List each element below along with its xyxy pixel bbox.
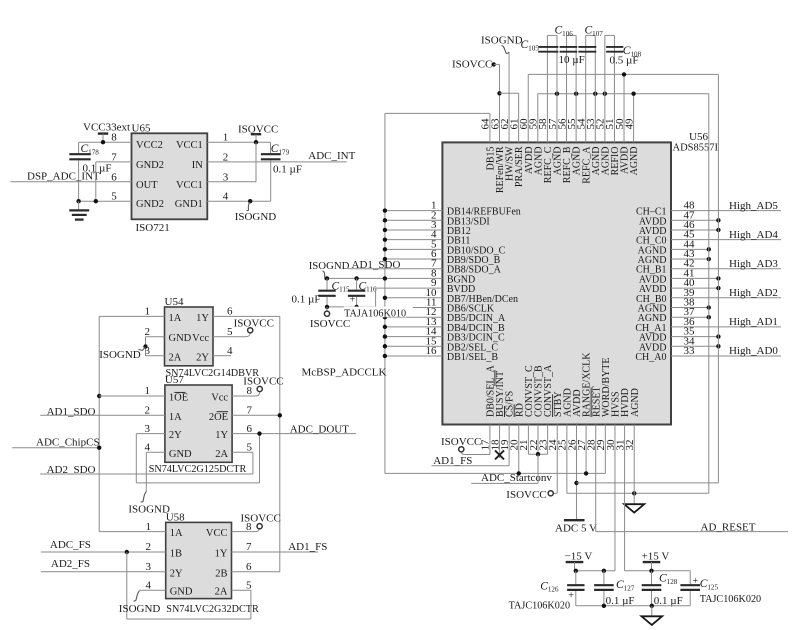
svg-text:2: 2 xyxy=(146,541,152,553)
isolator U65 box xyxy=(132,133,208,219)
svg-text:TAJC106K020: TAJC106K020 xyxy=(700,594,761,605)
net label DSP_ADC_INT xyxy=(27,170,100,182)
svg-text:4: 4 xyxy=(146,579,152,591)
svg-text:GND: GND xyxy=(169,333,192,344)
junction pin4 ISOGND tag xyxy=(248,199,252,203)
net label AD1_FS (pin19) xyxy=(433,455,472,467)
capacitor C116 (polarized) xyxy=(348,278,365,306)
svg-text:−15 V: −15 V xyxy=(565,550,593,562)
wire ADC_Startconv xyxy=(471,482,538,484)
junction pin8/VCC33ext xyxy=(101,140,105,144)
wire pin62 xyxy=(508,52,510,142)
ISOVCC terminal (pin17) xyxy=(441,436,481,452)
wire U65 pin4 GND1 xyxy=(207,200,270,202)
svg-text:3: 3 xyxy=(145,423,151,435)
svg-text:5: 5 xyxy=(247,442,253,454)
svg-text:ADS8557I: ADS8557I xyxy=(673,143,719,154)
wire U57 pin7 2OE xyxy=(232,414,280,416)
svg-text:AD2_FS: AD2_FS xyxy=(51,558,90,570)
svg-text:+: + xyxy=(693,576,699,587)
wire McBSP clock line xyxy=(385,425,605,474)
U56 reference label xyxy=(689,131,708,143)
junction at U57 pin7 xyxy=(278,413,282,417)
U56 right pin names xyxy=(635,207,666,363)
wire U57 pin6 1Y / net ADC_DOUT xyxy=(232,433,356,435)
svg-text:ISOVCC: ISOVCC xyxy=(243,376,283,388)
C107 label xyxy=(585,25,604,38)
net label ADC_ChipCS xyxy=(36,437,100,449)
junction dots row8 BGND xyxy=(325,276,359,280)
ISOGND tag squiggle (top) xyxy=(502,46,510,54)
data bus vertical (left of U56) xyxy=(384,113,386,473)
wire AD1_SDO to U57 pin2 1A xyxy=(40,414,165,416)
C127 value 0.1 uF xyxy=(606,595,635,607)
U56 bottom pin names xyxy=(486,352,641,417)
svg-text:U65: U65 xyxy=(132,122,151,134)
junction McBSP/pin27 xyxy=(584,471,588,475)
svg-text:1OE: 1OE xyxy=(169,393,188,404)
svg-text:SN74LVC2G32DCTR: SN74LVC2G32DCTR xyxy=(166,604,259,615)
svg-text:1: 1 xyxy=(145,385,151,397)
svg-text:ISOVCC: ISOVCC xyxy=(506,489,546,501)
svg-text:ISO721: ISO721 xyxy=(136,222,170,234)
svg-text:1: 1 xyxy=(146,521,152,533)
svg-text:High_AD4: High_AD4 xyxy=(729,229,778,241)
C126 plus sign xyxy=(568,590,574,601)
svg-text:High_AD2: High_AD2 xyxy=(729,287,778,299)
wire U65 pin2 IN / net ADC_INT xyxy=(207,161,346,163)
wire BVDD row9 drop xyxy=(375,288,377,307)
ISOGND tag (U65) xyxy=(235,202,277,223)
U65 part name ISO721 xyxy=(136,222,170,234)
svg-text:1A: 1A xyxy=(169,412,182,423)
svg-text:High_AD0: High_AD0 xyxy=(729,345,778,357)
junction pin63/rail-B-left xyxy=(497,91,501,95)
svg-text:ADC 5 V: ADC 5 V xyxy=(555,523,597,535)
svg-text:7: 7 xyxy=(246,541,252,553)
wire U58 pin8 VCC + ISOVCC stub xyxy=(232,528,260,532)
right AVDD/AGND junction dots xyxy=(707,218,721,348)
svg-text:ADC_FS: ADC_FS xyxy=(50,539,91,551)
capacitor C106 xyxy=(560,35,578,142)
wire pin25 AGND to ground line xyxy=(567,425,709,494)
svg-text:3: 3 xyxy=(146,561,152,573)
junction column at U57 pin1 xyxy=(97,394,101,398)
ISOVCC terminal (C115 rail) xyxy=(324,307,329,316)
wire ADC_FS branch to 2A loop xyxy=(127,552,251,619)
U58 part name SN74LVC2G32DCTR xyxy=(166,604,259,615)
AVDD rail A (top) xyxy=(528,73,718,75)
wire pin59 from rail B xyxy=(537,94,539,143)
junction ISOVCC label dot xyxy=(492,62,496,66)
capacitor C105 xyxy=(538,35,558,142)
power flag +15 V xyxy=(642,550,670,571)
C115 label xyxy=(332,280,351,293)
power flag ISOVCC (U65 right) xyxy=(238,124,278,143)
C108 label xyxy=(623,45,642,58)
wire C178 bottom lead xyxy=(78,160,80,201)
svg-text:GND: GND xyxy=(170,587,193,598)
U56 part name ADS8557I xyxy=(673,143,719,154)
svg-text:2A: 2A xyxy=(169,352,182,363)
part label TAJC106K020 (left) xyxy=(509,600,570,611)
U56 top pin numbers xyxy=(480,118,636,130)
svg-text:U57: U57 xyxy=(165,374,184,386)
wire U65 pin8 VCC2 xyxy=(79,141,132,143)
svg-text:AD_RESET: AD_RESET xyxy=(701,521,756,533)
svg-text:1A: 1A xyxy=(169,313,182,324)
wire bottom caps ground rail xyxy=(576,605,690,607)
wire AD1_FS to pin19 CS/FS xyxy=(432,425,510,466)
svg-text:ISOGND: ISOGND xyxy=(235,211,277,223)
C127 label xyxy=(616,579,635,592)
wire pin49 from rail B xyxy=(633,94,635,143)
junction ChipCS/column xyxy=(97,446,101,450)
svg-text:ISOVCC: ISOVCC xyxy=(241,512,281,524)
U56 right pin numbers xyxy=(684,200,696,357)
svg-text:2A: 2A xyxy=(215,587,228,598)
U56 left pin wires xyxy=(327,211,442,356)
wire ADC_ChipCS xyxy=(12,447,99,449)
wire U57 pin5 2A riser xyxy=(232,452,253,474)
wire AVDD 5V line xyxy=(576,482,718,484)
wire pin60 from rail A xyxy=(527,74,529,142)
ADC U56 box xyxy=(442,142,671,424)
net label AD1_FS (U58) xyxy=(288,541,327,553)
ISOVCC terminal (U58) xyxy=(241,512,281,528)
svg-text:0.1 µF: 0.1 µF xyxy=(273,163,302,175)
C116 label xyxy=(359,280,378,293)
net label ADC_Startconv xyxy=(481,472,552,484)
U58 reference label xyxy=(166,512,185,524)
AVDD column (right) xyxy=(717,74,719,483)
svg-text:1Y: 1Y xyxy=(215,430,228,441)
junction ground rail xyxy=(602,604,654,608)
svg-text:AD1_SDO: AD1_SDO xyxy=(47,406,96,418)
U54 reference label xyxy=(165,296,184,308)
wire ground stem xyxy=(651,606,653,616)
U54 pin names xyxy=(169,313,210,363)
svg-text:OUT: OUT xyxy=(136,180,158,191)
capacitor C179 xyxy=(261,154,281,159)
svg-text:Vcc: Vcc xyxy=(192,333,209,344)
ground triangle (pin32) xyxy=(624,504,644,512)
svg-text:U54: U54 xyxy=(165,296,184,308)
U57 pin names xyxy=(169,392,229,459)
svg-text:U58: U58 xyxy=(166,512,185,524)
net label ISOVCC (C115 rail) xyxy=(310,318,350,330)
svg-text:4: 4 xyxy=(227,345,233,357)
ISOGND tag squiggle (C115) xyxy=(323,271,328,279)
U57 pin numbers xyxy=(145,385,253,453)
capacitor C108 xyxy=(605,35,623,142)
svg-text:VCC: VCC xyxy=(206,528,228,539)
wire C178 top lead xyxy=(78,142,80,153)
svg-text:TAJA106K010: TAJA106K010 xyxy=(344,309,406,320)
junction U54 ISOGND tag xyxy=(143,344,147,348)
svg-text:GND: GND xyxy=(169,449,192,460)
capacitor C107 xyxy=(578,35,596,142)
net label AD2_SDO xyxy=(47,464,96,476)
capacitor C178 xyxy=(69,154,90,159)
svg-text:DSP_ADC_INT: DSP_ADC_INT xyxy=(27,170,100,182)
U58 pin names xyxy=(170,528,228,598)
wire U54 pin2 GND xyxy=(146,337,165,356)
wire U57 pin3 2Y xyxy=(136,434,165,483)
capacitor C128 xyxy=(642,571,662,606)
svg-text:ISOVCC: ISOVCC xyxy=(310,318,350,330)
junction dots rail B xyxy=(555,92,636,96)
wire U65 pin1 VCC1 xyxy=(207,141,270,143)
svg-text:ISOVCC: ISOVCC xyxy=(234,317,274,329)
svg-text:0.1 µF: 0.1 µF xyxy=(606,595,635,607)
svg-text:VCC33ext: VCC33ext xyxy=(83,121,130,133)
wire CONVST drop to ADC_Startconv xyxy=(537,454,539,483)
ISOVCC terminal (pin24) xyxy=(506,489,553,501)
wire U57 pin4 GND xyxy=(146,452,165,491)
svg-text:VCC2: VCC2 xyxy=(136,140,163,151)
net label ADC_DOUT xyxy=(290,423,350,435)
svg-text:High_AD3: High_AD3 xyxy=(729,258,778,270)
svg-text:10 µF: 10 µF xyxy=(559,54,585,66)
svg-text:GND2: GND2 xyxy=(136,160,164,171)
wire U58 pin6 2B xyxy=(232,571,280,573)
junction -15V rail xyxy=(574,569,607,573)
svg-text:ADC_INT: ADC_INT xyxy=(308,150,355,162)
svg-text:2B: 2B xyxy=(215,568,227,579)
svg-text:1B: 1B xyxy=(170,549,182,560)
C116 plus sign xyxy=(350,295,356,306)
svg-text:2Y: 2Y xyxy=(169,430,182,441)
junction McBSP/pin20 xyxy=(517,471,521,475)
wire U54 pin5 Vcc + ISOVCC stub xyxy=(213,333,250,337)
svg-text:6: 6 xyxy=(246,561,252,573)
wire U65 pin5 GND2 xyxy=(79,200,132,202)
wire pin50 from rail A xyxy=(623,74,625,142)
wire pin27 RANGE/XCLK xyxy=(585,425,587,474)
junction pin50 rail A xyxy=(622,72,626,76)
svg-text:1Y: 1Y xyxy=(196,313,209,324)
junction GND2 leads xyxy=(76,199,98,203)
wire ADC_ChipCS / U54-U57-U58 input column xyxy=(98,316,100,531)
U56 top pin names xyxy=(486,146,641,193)
U56 right pin wires xyxy=(671,211,781,356)
net label McBSP_ADCCLK xyxy=(302,367,387,379)
svg-text:0.1 µF: 0.1 µF xyxy=(292,293,321,305)
net label ISOGND (top) xyxy=(481,35,523,47)
junction CONVST xyxy=(536,452,540,456)
capacitor C127 xyxy=(594,571,614,606)
svg-text:CH_A0: CH_A0 xyxy=(635,352,666,363)
wire U54 pin3 2A xyxy=(146,355,165,357)
C128 label xyxy=(659,573,678,586)
svg-text:+15 V: +15 V xyxy=(642,550,670,562)
svg-text:High_AD1: High_AD1 xyxy=(729,316,778,328)
net label ADC_INT xyxy=(308,150,355,162)
wire U65 pin7 GND2 xyxy=(96,162,132,201)
power flag VCC33ext xyxy=(83,121,130,142)
junction ADC_DOUT xyxy=(257,431,261,435)
svg-text:+: + xyxy=(350,295,356,306)
svg-text:VCC1: VCC1 xyxy=(176,180,203,191)
svg-text:AD1_SDO: AD1_SDO xyxy=(352,259,401,271)
ISOVCC terminal (U57) xyxy=(243,376,283,392)
C108 value 0.5 uF xyxy=(610,55,639,67)
junction ADC_FS branch xyxy=(125,550,129,554)
U57 part name SN74LVC2G125DCTR xyxy=(149,464,247,475)
wire AD2_FS to U58 pin3 2Y xyxy=(41,571,166,573)
wire U57 pin8 Vcc + ISOVCC stub xyxy=(232,392,260,396)
svg-text:0.5 µF: 0.5 µF xyxy=(610,55,639,67)
part label TAJC106K020 (right) xyxy=(700,594,761,605)
svg-text:2Y: 2Y xyxy=(170,568,183,579)
wire pin17 DB0/SEL_A to ISOVCC xyxy=(461,425,490,455)
wire AD2_SDO / U57 GND loop bottom xyxy=(40,473,253,475)
wire pin31 HVDD to +15V rail xyxy=(625,425,691,571)
wire ISOVCC to pin63 xyxy=(494,64,500,142)
svg-text:1: 1 xyxy=(145,306,151,318)
svg-text:DB1/SEL_B: DB1/SEL_B xyxy=(447,352,498,363)
svg-text:AD1_FS: AD1_FS xyxy=(433,455,472,467)
svg-text:1Y: 1Y xyxy=(215,549,228,560)
U54 part name SN74LVC2G14DBVR xyxy=(166,368,260,379)
svg-text:High_AD5: High_AD5 xyxy=(729,200,778,212)
net label AD1_SDO xyxy=(47,406,96,418)
C128 value 0.1 uF xyxy=(654,595,683,607)
svg-text:AGND: AGND xyxy=(629,147,640,176)
capacitor C125 (polarized) xyxy=(680,571,700,606)
AGND rail B (top) xyxy=(538,93,709,95)
wire U54 1Y to U57 2OE to U58 2B column xyxy=(279,316,281,571)
svg-text:7: 7 xyxy=(247,405,253,417)
C178 value 0.1 uF xyxy=(83,162,112,174)
svg-text:2A: 2A xyxy=(215,449,228,460)
svg-text:2OE: 2OE xyxy=(209,412,228,423)
svg-text:0.1 µF: 0.1 µF xyxy=(654,595,683,607)
C105 label xyxy=(521,39,540,52)
inverter U54 box xyxy=(165,307,214,366)
wire pin28 RESET / net AD_RESET xyxy=(596,425,788,532)
svg-text:McBSP_ADCCLK: McBSP_ADCCLK xyxy=(302,367,387,379)
net label AD1_SDO (row7) xyxy=(352,259,401,271)
svg-text:ISOGND: ISOGND xyxy=(128,504,170,516)
svg-text:4: 4 xyxy=(145,442,151,454)
svg-text:U56: U56 xyxy=(689,131,708,143)
svg-text:Vcc: Vcc xyxy=(211,393,228,404)
svg-text:ISOGND: ISOGND xyxy=(99,349,141,361)
ISOGND tag (U54) xyxy=(99,347,145,361)
wire C179 bottom lead xyxy=(270,160,272,201)
svg-text:6: 6 xyxy=(247,423,253,435)
wire pin26 AVDD to ADC5V xyxy=(575,425,577,520)
power flag -15 V xyxy=(565,550,593,571)
U56 bottom pin-name overlines xyxy=(495,370,591,417)
net label AD_RESET xyxy=(701,521,756,533)
wire U58 pin7 1Y / net AD1_FS xyxy=(232,551,319,553)
AGND column (right) xyxy=(708,94,710,494)
C115 value 0.1 uF xyxy=(292,293,321,305)
capacitor C115 xyxy=(318,278,335,306)
svg-text:2Y: 2Y xyxy=(196,352,209,363)
svg-text:VCC1: VCC1 xyxy=(176,140,203,151)
wire pin30 HVSS to -15V rail xyxy=(576,425,615,571)
wire pin20 RD xyxy=(518,425,520,474)
C125 label xyxy=(700,578,719,591)
C125 plus sign xyxy=(693,576,699,587)
svg-text:TAJC106K020: TAJC106K020 xyxy=(509,600,570,611)
U56 bottom pin numbers xyxy=(480,439,636,451)
U56 left pin names xyxy=(447,207,521,363)
U56 left pin numbers xyxy=(426,200,438,357)
ground symbol (earth) xyxy=(69,201,89,219)
C179 value 0.1 uF xyxy=(273,163,302,175)
U65 pin numbers xyxy=(111,132,229,203)
C178 label xyxy=(81,143,100,156)
wire ISOVCC rail (TAJA) xyxy=(327,306,376,308)
buffer U57 box xyxy=(165,385,232,462)
svg-text:ISOGND: ISOGND xyxy=(119,603,161,615)
wire U54 pin4 2Y stub xyxy=(213,355,231,357)
wire VCC1 riser pin3 to pin1 xyxy=(207,142,256,182)
svg-text:ISOVCC: ISOVCC xyxy=(441,436,481,448)
junction pin1/ISOVCC/pin3 riser xyxy=(254,140,258,144)
wire U54 pin6 1Y xyxy=(213,315,280,317)
svg-text:SN74LVC2G125DCTR: SN74LVC2G125DCTR xyxy=(149,464,247,475)
svg-text:2: 2 xyxy=(145,405,151,417)
svg-text:ISOVCC: ISOVCC xyxy=(452,59,492,71)
U54 pin numbers xyxy=(145,306,234,357)
junction AGND line / pin32 xyxy=(632,491,636,495)
ISOGND tag (U58) xyxy=(119,591,161,616)
svg-text:ADC_ChipCS: ADC_ChipCS xyxy=(36,437,100,449)
wire rail-B-left to pin61 xyxy=(499,93,518,142)
capacitor C126 (polarized) xyxy=(567,571,584,606)
U65 reference label xyxy=(132,122,151,134)
wire pin32 AGND xyxy=(633,425,635,504)
wire pin24 STBY to ISOVCC xyxy=(553,425,557,494)
net label ADC_FS xyxy=(50,539,91,551)
junction +15V rail xyxy=(649,569,653,573)
U57 reference label xyxy=(165,374,184,386)
svg-text:5: 5 xyxy=(227,326,233,338)
wire U54 pin1 1A xyxy=(99,315,164,317)
net labels High_AD5..High_AD0 xyxy=(729,200,778,357)
wire pin64 DB15 top route xyxy=(385,113,490,142)
wire DSP_ADC_INT to pin6 OUT xyxy=(10,181,131,183)
wire ADC_FS to U58 pin2 1B xyxy=(41,551,166,553)
ISOGND tag (U57) xyxy=(128,492,170,516)
part label TAJA106K010 xyxy=(344,307,407,320)
svg-text:6: 6 xyxy=(227,306,233,318)
wire U57 2Y to output loop xyxy=(136,434,259,483)
U65 pin names xyxy=(136,140,203,210)
wire U58 pin5 2A xyxy=(232,589,251,591)
U58 pin numbers xyxy=(146,521,253,592)
bus junction dots xyxy=(383,208,387,358)
svg-text:GND1: GND1 xyxy=(175,199,203,210)
wire U58 pin4 GND xyxy=(140,589,166,591)
net label ISOGND (C115 area) xyxy=(309,260,350,272)
svg-text:GND2: GND2 xyxy=(136,199,164,210)
ground triangle (bottom) xyxy=(642,616,663,625)
svg-text:AD1_FS: AD1_FS xyxy=(288,541,327,553)
svg-text:2: 2 xyxy=(145,326,151,338)
ISOVCC terminal (U54) xyxy=(234,317,274,333)
junction caps bottom xyxy=(325,305,359,309)
svg-text:AGND: AGND xyxy=(630,388,641,417)
net label AD2_FS xyxy=(51,558,90,570)
or-gate U58 box xyxy=(166,522,232,598)
